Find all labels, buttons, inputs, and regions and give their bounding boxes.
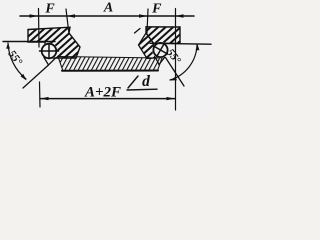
left plate (hatched section) (28, 27, 80, 58)
right plate (hatched section) (146, 27, 180, 44)
extension line left outer (lower part) (39, 82, 42, 107)
arrowhead A right (139, 14, 148, 17)
extension line A right (147, 9, 148, 33)
left arc arrow up (6, 43, 10, 49)
right arc arrow down (170, 77, 177, 81)
svg-text:d: d (142, 73, 150, 90)
extension line left outer (upper part) (38, 9, 41, 48)
right weld spot circle (152, 42, 168, 58)
fillet leg symbol slash (128, 76, 138, 88)
top dimension line (20, 15, 194, 17)
fillet leg symbol underline (127, 88, 157, 91)
left arc arrow down (21, 74, 27, 81)
right angle reference line (150, 42, 211, 45)
extension line A left (66, 9, 69, 34)
svg-text:A+2F: A+2F (84, 85, 121, 101)
arrowhead A left (67, 14, 76, 17)
arrowhead F right (175, 14, 184, 17)
right weld root V (156, 58, 165, 65)
left angle arc (8, 43, 26, 79)
right arc arrow up (196, 44, 200, 50)
bottom dimension line A+2F (40, 98, 175, 100)
svg-text:F: F (44, 2, 55, 17)
backing strip bottom edge (62, 70, 158, 72)
arrowhead F left (30, 14, 39, 17)
right angle arc (170, 45, 197, 80)
left bevel extension line (23, 65, 49, 88)
left angle reference line (3, 41, 55, 43)
stray hatch stroke left of right plate bevel (135, 29, 141, 34)
svg-text:F: F (151, 2, 162, 17)
backing strip (hatched section) (58, 57, 162, 72)
left weld spot circle (40, 43, 59, 60)
svg-text:A: A (103, 1, 113, 16)
right weld wedge (hatched) (139, 33, 158, 59)
left weld root V (44, 58, 55, 66)
right bevel extension line (166, 58, 185, 87)
extension line right outer (175, 9, 177, 111)
arrowhead bottom left (40, 97, 49, 100)
arrowhead bottom right (167, 97, 176, 100)
